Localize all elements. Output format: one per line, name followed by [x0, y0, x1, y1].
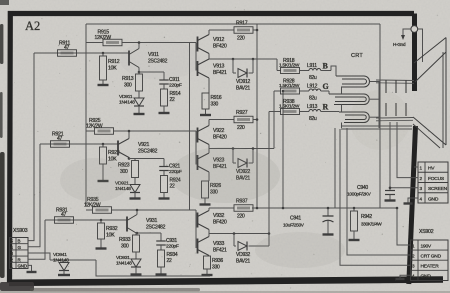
resistor R912 10K	[102, 52, 105, 55]
capacitor C921 220pF	[129, 158, 164, 160]
diode VD932 BAV21	[233, 234, 235, 247]
svg-text:220: 220	[237, 125, 245, 131]
diode VD922 BAV21	[232, 149, 234, 164]
CRT heater lines	[341, 125, 412, 127]
svg-text:330K/1/4W: 330K/1/4W	[361, 222, 382, 227]
wire B cathode connect	[331, 66, 336, 76]
svg-text:R942: R942	[361, 214, 372, 220]
wire input row 3	[45, 219, 127, 221]
svg-text:R916: R916	[211, 95, 222, 101]
wire input row 2	[40, 143, 118, 145]
svg-text:HEATER: HEATER	[421, 264, 440, 270]
svg-text:BF421: BF421	[213, 248, 227, 254]
svg-text:1.5K/1/2W: 1.5K/1/2W	[279, 63, 300, 69]
wire XS903 pin4 G input	[28, 144, 40, 247]
ground at XS901 pin 4	[404, 202, 413, 204]
svg-text:GND: GND	[18, 264, 28, 269]
wire HV pin	[414, 166, 418, 168]
svg-text:VD911: VD911	[119, 94, 133, 100]
ground under VD941	[58, 274, 70, 276]
svg-text:V921: V921	[138, 142, 149, 148]
svg-text:BF420: BF420	[213, 220, 227, 226]
resistor R928 1.5K/1/2W	[274, 90, 281, 92]
svg-text:L911: L911	[307, 63, 317, 69]
resistor R931 47	[55, 217, 74, 224]
node B (CRT cathode)	[321, 70, 331, 72]
transistor V933 BF421	[197, 239, 199, 254]
wire XS903 pin5 B input	[28, 53, 34, 241]
ground at XS902 pin 4	[396, 278, 405, 280]
ground under VD931	[135, 267, 137, 275]
transistor V913 BF421	[197, 61, 199, 76]
svg-text:10uF/250V: 10uF/250V	[283, 223, 305, 228]
resistor R916 330	[202, 93, 209, 109]
inductor L911 82u	[300, 70, 310, 72]
wire G cathode connect	[328, 91, 330, 94]
transistor V931 2SC2482	[126, 217, 128, 232]
svg-text:CRT: CRT	[351, 53, 363, 59]
svg-text:C931: C931	[166, 238, 177, 244]
ground under R936	[202, 274, 213, 276]
wire output row 2	[209, 148, 274, 150]
svg-text:R913: R913	[122, 76, 134, 82]
CRT gun filament G	[329, 94, 369, 105]
svg-text:10K: 10K	[106, 233, 115, 239]
svg-text:R917: R917	[236, 21, 248, 27]
svg-text:V913: V913	[213, 64, 224, 70]
wire XS903 pin2 R input	[28, 220, 45, 259]
svg-text:V931: V931	[146, 218, 157, 224]
svg-text:12K/2W: 12K/2W	[86, 123, 103, 129]
svg-text:330: 330	[212, 265, 220, 271]
CRT funnel outline	[414, 38, 446, 64]
svg-text:SCREEN: SCREEN	[428, 186, 448, 192]
svg-text:BF420: BF420	[213, 44, 227, 50]
resistor R932 10K	[100, 219, 103, 222]
diode VD921 1N4148	[134, 178, 136, 185]
resistor R927 220	[209, 119, 234, 121]
capacitor C940 1000pF/2KV	[389, 122, 391, 191]
capacitor C931 220pF	[137, 232, 161, 234]
svg-text:2SC2482: 2SC2482	[146, 225, 166, 231]
svg-text:C940: C940	[357, 185, 368, 191]
resistor R914 22	[163, 84, 165, 89]
svg-text:B: B	[18, 239, 21, 244]
resistor R911 47	[58, 50, 77, 57]
wire GND pin XS901	[408, 198, 418, 203]
CRT neck bottom wall	[376, 117, 413, 120]
wire base link row 2	[195, 131, 197, 165]
wire collector rail row 2	[86, 130, 95, 132]
svg-text:VD931: VD931	[116, 255, 130, 261]
wire XS903 pin3	[28, 253, 50, 260]
wire B feed jog	[276, 59, 278, 71]
wire collector rail row 1	[86, 42, 103, 44]
svg-text:220pF: 220pF	[166, 244, 179, 250]
wire interstage vertical	[189, 43, 191, 210]
svg-text:GND: GND	[428, 196, 439, 202]
wire filament ladder	[341, 87, 343, 94]
transistor V912 BF420	[197, 37, 199, 52]
svg-text:47: 47	[61, 212, 67, 218]
wire bottom return rail	[96, 260, 210, 276]
svg-text:V933: V933	[213, 241, 224, 247]
svg-text:CRT GND: CRT GND	[421, 254, 442, 260]
svg-text:H-Gnd: H-Gnd	[393, 42, 406, 47]
svg-text:VD932: VD932	[236, 252, 251, 258]
wire XS903 pin1 GND	[28, 265, 32, 271]
svg-text:47: 47	[64, 45, 70, 51]
svg-text:10K: 10K	[108, 66, 117, 72]
wire +190V distribution rail	[252, 207, 397, 209]
svg-text:1N4148: 1N4148	[53, 258, 69, 264]
svg-text:1N4148: 1N4148	[119, 100, 135, 106]
svg-text:82u: 82u	[309, 96, 317, 102]
resistor R924 22	[163, 171, 165, 176]
svg-text:BF420: BF420	[213, 135, 227, 141]
svg-text:82u: 82u	[309, 75, 317, 81]
svg-text:300: 300	[121, 244, 129, 250]
resistor R936 330	[204, 256, 211, 269]
svg-text:1000pF/2KV: 1000pF/2KV	[347, 192, 372, 197]
svg-text:R936: R936	[212, 258, 223, 264]
svg-text:22: 22	[170, 97, 176, 103]
wire 190V pin	[397, 208, 411, 245]
svg-text:V932: V932	[213, 213, 224, 219]
node G (CRT cathode)	[321, 90, 329, 92]
wire GND pin XS902	[400, 275, 411, 278]
resistor R937 220	[209, 207, 234, 209]
CRT anode bar (top right, from border corner)	[412, 14, 417, 92]
svg-text:B: B	[323, 62, 329, 71]
wire base link row 3	[195, 210, 197, 248]
diode VD941 1N4148	[50, 259, 96, 261]
inductor L912 82u	[300, 90, 310, 92]
diode VD931 1N4148	[135, 252, 137, 259]
svg-text:82u: 82u	[309, 116, 317, 122]
svg-text:C941: C941	[290, 216, 301, 222]
ground under R926	[200, 203, 211, 205]
ground under VD921	[134, 193, 136, 199]
svg-text:12K/2W: 12K/2W	[95, 35, 112, 41]
wire +190V right vertical bus	[379, 24, 381, 208]
resistor R918 1.5K/1/2W	[277, 70, 281, 72]
svg-text:220: 220	[237, 214, 245, 220]
wire R cathode connect	[338, 111, 340, 114]
svg-text:BAV21: BAV21	[236, 259, 250, 265]
wire HEATER pin	[340, 129, 411, 265]
wire 220-ohm collector bus vertical	[256, 24, 258, 208]
resistor R923 300	[128, 157, 131, 160]
ground under R934	[160, 267, 162, 275]
transistor V932 BF420	[197, 213, 199, 228]
resistor R922 10K	[102, 143, 105, 146]
resistor R915 12K/2W	[103, 39, 122, 46]
ground under R912	[98, 84, 109, 86]
svg-text:XS903: XS903	[13, 228, 28, 234]
svg-text:V922: V922	[213, 128, 224, 134]
resistor R935 12K/2W	[93, 207, 112, 214]
wire anode lead	[418, 29, 423, 62]
resistor R926 330	[202, 181, 209, 198]
svg-text:1.5K/1/2W: 1.5K/1/2W	[279, 104, 300, 110]
wire output row 1	[209, 58, 277, 60]
diode VD912 BAV21	[232, 59, 234, 73]
wire CRT GND pin	[347, 128, 411, 255]
svg-text:R932: R932	[106, 226, 118, 232]
resistor R933 300	[136, 232, 139, 235]
svg-text:L913: L913	[307, 104, 318, 110]
svg-text:BF421: BF421	[213, 70, 227, 76]
resistor R938 1.5K/1/2W	[269, 111, 281, 113]
svg-text:A2: A2	[25, 19, 40, 33]
right border bar	[409, 126, 416, 284]
ground under C940	[385, 199, 396, 201]
ground under C941	[323, 233, 334, 235]
svg-text:VD912: VD912	[236, 79, 251, 85]
resistor R925 12K/2W	[95, 128, 114, 135]
ground under R916	[200, 114, 211, 116]
svg-text:L912: L912	[307, 84, 318, 90]
svg-text:12K/2W: 12K/2W	[84, 202, 101, 208]
ground under R932	[96, 247, 107, 249]
resistor R913 300	[138, 71, 141, 74]
wire +190V left vertical bus	[85, 24, 87, 206]
svg-text:R: R	[323, 103, 329, 112]
svg-text:GND: GND	[421, 274, 432, 280]
resistor R921 47	[51, 141, 70, 148]
resistor R917 220	[209, 29, 234, 31]
wire filament bus right	[370, 82, 379, 129]
CRT neck top wall	[376, 79, 414, 82]
inductor L913 82u	[300, 111, 310, 113]
svg-text:FOCUS: FOCUS	[428, 176, 445, 182]
wire output row 3	[209, 233, 269, 235]
svg-text:220pF: 220pF	[169, 83, 182, 89]
wire FOCUS pin	[397, 122, 418, 178]
svg-text:190V: 190V	[421, 243, 432, 249]
ground under R942	[349, 239, 360, 241]
svg-text:22: 22	[167, 258, 173, 264]
svg-text:XS902: XS902	[419, 229, 434, 235]
ground under R924	[163, 193, 165, 199]
svg-text:V912: V912	[213, 37, 224, 43]
ground under R922	[98, 180, 109, 182]
wire SCREEN pin	[390, 187, 418, 189]
transistor V921 2SC2482	[117, 141, 119, 156]
wire G feed riser	[273, 91, 275, 149]
wire clamp bus vertical	[282, 91, 284, 208]
wire input row 1	[34, 52, 129, 54]
resistor R942 330K/1/4W	[353, 208, 355, 211]
transistor V911 2SC2482	[128, 51, 130, 66]
svg-text:G: G	[323, 82, 329, 91]
svg-text:BAV21: BAV21	[236, 86, 250, 92]
node R (CRT cathode)	[321, 111, 339, 113]
svg-text:1N4148: 1N4148	[116, 261, 132, 267]
svg-text:2SC2482: 2SC2482	[138, 149, 158, 155]
ground under R914	[163, 106, 165, 113]
svg-text:330: 330	[211, 102, 219, 108]
svg-text:1.5K/1/2W: 1.5K/1/2W	[279, 83, 300, 89]
capacitor C941 10uF/250V electrolytic	[327, 208, 329, 216]
capacitor C911 220pF	[139, 71, 164, 73]
ground under VD911	[138, 106, 140, 114]
CRT grid electrodes (dashed)	[385, 80, 387, 93]
transistor V922 BF420	[197, 128, 199, 143]
diode VD911 1N4148	[138, 91, 140, 98]
svg-text:R933: R933	[119, 237, 131, 243]
resistor R934 22	[160, 245, 162, 250]
wire +190V top rail	[86, 23, 380, 25]
svg-text:VD941: VD941	[53, 252, 67, 258]
svg-text:R927: R927	[236, 110, 248, 116]
transistor V923 BF421	[197, 155, 199, 170]
wire collector rail row 3	[86, 209, 93, 211]
CRT gun filament R	[339, 112, 369, 123]
node H-Gnd with anode circle	[411, 26, 418, 33]
wire base link row 1	[195, 43, 197, 71]
ground at XS903 pin1	[27, 271, 37, 273]
connector XS901 (HV/FOCUS/SCREEN/GND)	[418, 162, 448, 203]
svg-text:47: 47	[57, 136, 63, 142]
svg-text:220: 220	[237, 36, 245, 42]
wire CRT aux vertical	[334, 128, 336, 208]
CRT gun filament B	[336, 76, 370, 87]
wire R feed riser	[268, 112, 270, 234]
svg-text:300: 300	[124, 83, 132, 89]
svg-text:HV: HV	[428, 166, 435, 172]
svg-text:R912: R912	[108, 59, 120, 65]
